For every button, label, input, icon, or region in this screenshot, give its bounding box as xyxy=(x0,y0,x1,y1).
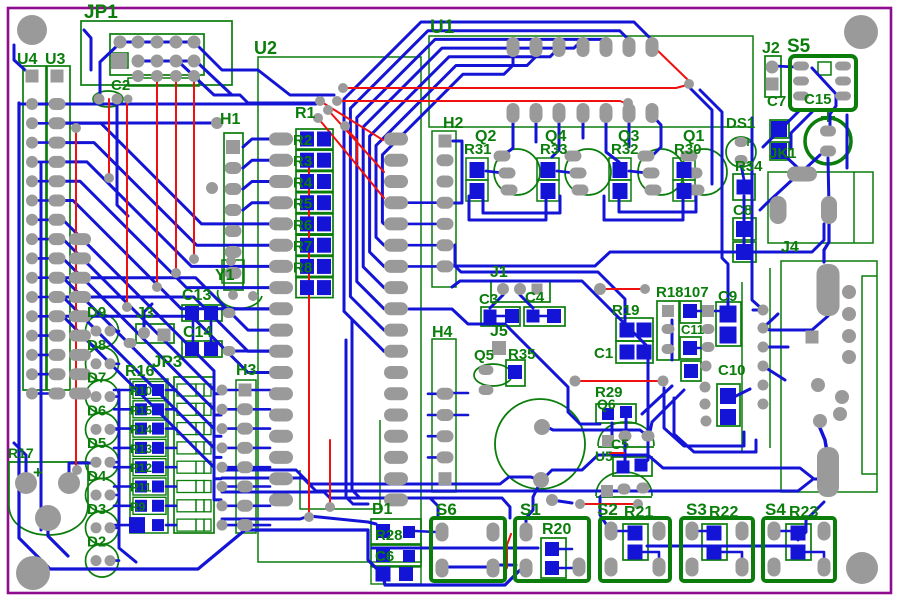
svg-text:R20: R20 xyxy=(542,521,571,538)
svg-text:JK1: JK1 xyxy=(769,145,797,162)
svg-text:R18107: R18107 xyxy=(656,284,709,301)
svg-text:JP3: JP3 xyxy=(152,352,182,371)
svg-text:R34: R34 xyxy=(735,158,763,175)
svg-text:C9: C9 xyxy=(718,288,737,305)
svg-text:+: + xyxy=(33,463,43,482)
svg-text:U3: U3 xyxy=(45,51,66,68)
svg-text:J3: J3 xyxy=(136,305,154,322)
svg-text:S1: S1 xyxy=(520,500,541,519)
svg-text:U5: U5 xyxy=(595,448,613,464)
svg-text:R16: R16 xyxy=(125,363,154,380)
svg-text:U1: U1 xyxy=(430,17,455,38)
svg-text:R6: R6 xyxy=(293,217,312,234)
svg-text:U4: U4 xyxy=(17,51,38,68)
svg-text:D4: D4 xyxy=(87,468,107,485)
svg-text:R32: R32 xyxy=(611,141,639,158)
svg-text:S2: S2 xyxy=(597,500,618,519)
svg-text:C2: C2 xyxy=(111,77,130,94)
svg-text:C14: C14 xyxy=(183,324,212,341)
svg-text:C13: C13 xyxy=(182,287,211,304)
svg-text:R21: R21 xyxy=(624,504,653,521)
svg-text:H1: H1 xyxy=(220,111,241,128)
svg-text:R3: R3 xyxy=(293,153,312,170)
svg-text:C8: C8 xyxy=(733,202,752,219)
svg-text:R30: R30 xyxy=(674,141,702,158)
svg-text:R9: R9 xyxy=(130,500,146,514)
svg-text:R4: R4 xyxy=(293,174,313,191)
svg-text:R8: R8 xyxy=(293,259,312,276)
svg-text:C15: C15 xyxy=(804,91,832,108)
svg-text:H3: H3 xyxy=(236,362,257,379)
svg-text:Y1: Y1 xyxy=(215,267,235,284)
svg-text:D7: D7 xyxy=(87,370,106,387)
svg-text:R5: R5 xyxy=(293,196,312,213)
svg-text:R7: R7 xyxy=(293,238,312,255)
svg-text:D1: D1 xyxy=(372,501,393,518)
svg-text:R15: R15 xyxy=(130,403,152,417)
svg-text:Q5: Q5 xyxy=(474,347,494,364)
svg-text:DS1: DS1 xyxy=(726,115,755,132)
svg-text:C4: C4 xyxy=(525,289,545,306)
svg-text:R13: R13 xyxy=(130,442,152,456)
svg-text:D3: D3 xyxy=(87,501,106,518)
svg-text:C10: C10 xyxy=(718,362,746,379)
svg-text:D5: D5 xyxy=(87,435,106,452)
svg-text:C5: C5 xyxy=(611,436,629,452)
svg-text:D9: D9 xyxy=(87,304,106,321)
svg-text:R11: R11 xyxy=(130,481,152,495)
svg-text:R33: R33 xyxy=(540,141,568,158)
svg-text:Q6: Q6 xyxy=(597,396,616,412)
svg-text:H4: H4 xyxy=(432,324,453,341)
svg-text:R31: R31 xyxy=(464,141,492,158)
svg-text:U2: U2 xyxy=(254,38,277,58)
svg-text:J1: J1 xyxy=(490,264,508,281)
svg-text:S4: S4 xyxy=(765,500,786,519)
svg-text:R2: R2 xyxy=(293,132,312,149)
svg-text:R17: R17 xyxy=(8,445,34,461)
svg-text:R28: R28 xyxy=(375,527,403,544)
svg-text:D2: D2 xyxy=(87,534,106,551)
svg-text:J4: J4 xyxy=(781,239,799,256)
svg-text:JP1: JP1 xyxy=(84,2,118,23)
svg-text:S5: S5 xyxy=(787,36,811,57)
svg-text:R22: R22 xyxy=(709,504,738,521)
svg-text:R35: R35 xyxy=(508,346,536,363)
svg-text:C7: C7 xyxy=(767,93,786,110)
svg-text:S6: S6 xyxy=(436,500,457,519)
svg-text:R14: R14 xyxy=(130,423,152,437)
svg-text:C1: C1 xyxy=(594,345,613,362)
svg-text:H2: H2 xyxy=(443,115,464,132)
svg-text:C3: C3 xyxy=(479,291,498,308)
svg-text:S3: S3 xyxy=(686,500,707,519)
svg-text:C11: C11 xyxy=(681,322,704,337)
svg-text:D8: D8 xyxy=(87,337,106,354)
svg-text:R1: R1 xyxy=(295,105,316,122)
svg-text:D6: D6 xyxy=(87,402,106,419)
svg-text:C6: C6 xyxy=(375,548,394,565)
svg-text:R10: R10 xyxy=(130,384,152,398)
svg-text:R23: R23 xyxy=(789,504,818,521)
svg-text:R12: R12 xyxy=(130,461,152,475)
svg-text:J2: J2 xyxy=(762,40,780,57)
svg-text:J5: J5 xyxy=(490,323,508,340)
svg-text:R19: R19 xyxy=(612,302,640,319)
